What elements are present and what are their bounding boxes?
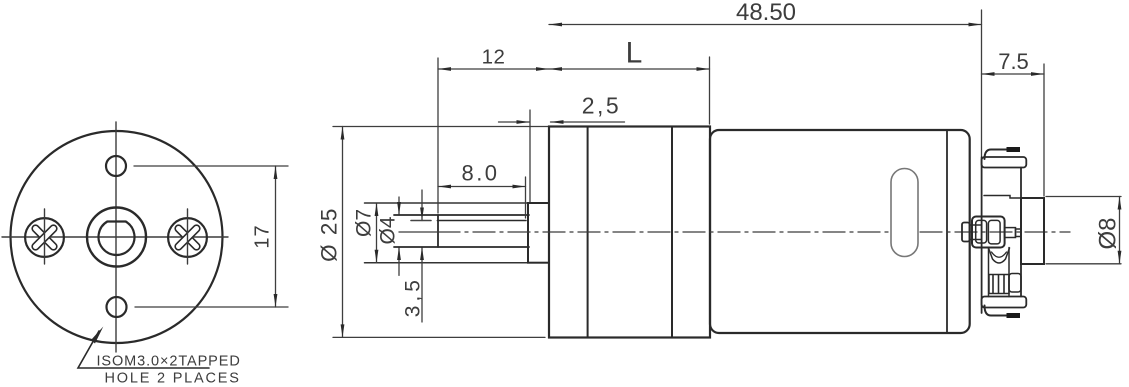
dim 2,5 hub extension line xyxy=(529,110,531,202)
svg-text:Ø 25: Ø 25 xyxy=(317,207,342,262)
hatched block xyxy=(989,275,1009,294)
endcap lower column xyxy=(988,248,990,297)
front view: D-shaped shaft hole xyxy=(99,222,135,255)
dim 2,5 left arrow (outside) xyxy=(499,121,530,123)
endcap top clip xyxy=(985,150,1020,160)
dim 17 bottom extension line xyxy=(135,306,288,308)
dim phi4 dimension line with outside arrows xyxy=(398,197,400,215)
dim 12 extension line at shaft tip xyxy=(437,58,439,213)
shaft phi4 top line xyxy=(394,214,529,216)
dim 48.50 dimension line xyxy=(549,24,982,26)
endcap top step lines xyxy=(984,196,1021,199)
svg-text:ISOM3.0×2TAPPED: ISOM3.0×2TAPPED xyxy=(97,354,241,370)
dim L dimension line xyxy=(549,68,710,70)
dim phi8 bottom extension line xyxy=(1046,263,1121,265)
svg-text:7.5: 7.5 xyxy=(998,49,1029,74)
shaft phi4 bottom line xyxy=(394,246,529,248)
front view: left tapped hole circle xyxy=(25,218,64,257)
dim phi25 top extension line xyxy=(333,126,549,128)
svg-text:12: 12 xyxy=(482,46,506,69)
front view: motor face outer circle xyxy=(11,131,223,343)
shaft flat short dash xyxy=(411,220,431,222)
front view: right tapped hole circle xyxy=(168,218,207,257)
dim 2,5 right arrow and leader xyxy=(551,121,625,123)
front view: left tapped hole centerline xyxy=(44,209,46,264)
svg-text:Ø7: Ø7 xyxy=(353,209,376,237)
dim 3,5 dimension line with outside arrows xyxy=(421,190,423,221)
dim 7.5 dimension line xyxy=(982,73,1045,75)
brush slot 2 xyxy=(988,220,1000,244)
endcap left edge xyxy=(981,157,983,313)
leader line xyxy=(78,331,209,368)
front view: horizontal centerline xyxy=(2,236,228,238)
lower rounded box xyxy=(1009,274,1021,293)
svg-text:Ø8: Ø8 xyxy=(1095,217,1122,249)
dim phi7 dimension line xyxy=(376,203,378,263)
dim phi8 top extension line xyxy=(1046,196,1121,198)
gearbox body xyxy=(549,127,710,338)
gearbox internal line 1 xyxy=(587,127,589,338)
gearbox internal line 2 xyxy=(671,127,673,338)
dim 17 dimension line xyxy=(275,166,277,307)
front view: center hub outer circle xyxy=(87,208,146,267)
dim 12 dimension line xyxy=(438,68,549,70)
motor can vent slot xyxy=(891,169,918,257)
bearing hub xyxy=(528,203,549,263)
dim 7.5 right extension line xyxy=(1043,64,1045,196)
motor can crimp line xyxy=(946,130,948,333)
front view: left tapped hole cross xyxy=(31,224,58,251)
endcap right edge xyxy=(1020,168,1022,297)
endcap top rim bar xyxy=(982,157,1027,168)
front view: top mounting hole xyxy=(106,156,126,176)
svg-text:17: 17 xyxy=(252,224,274,248)
front view: bottom mounting hole xyxy=(107,297,127,317)
svg-text:48.50: 48.50 xyxy=(736,0,796,26)
motor can body xyxy=(710,130,970,333)
endcap bottom rim bar xyxy=(982,297,1027,308)
dim 8.0 dimension line xyxy=(438,186,526,188)
front view: right tapped hole centerline xyxy=(187,209,189,264)
brush housing small box A xyxy=(962,223,970,242)
svg-text:3,5: 3,5 xyxy=(402,276,425,317)
dim L extension line xyxy=(709,57,711,124)
dim phi25 bottom extension line xyxy=(333,336,545,338)
endcap cup arcs xyxy=(989,248,1010,263)
front view: right tapped hole cross xyxy=(174,224,201,251)
dim phi25 dimension line xyxy=(342,127,344,338)
svg-text:8.0: 8.0 xyxy=(461,161,499,186)
shaft flat line xyxy=(437,220,526,222)
dim 8.0 right extension line xyxy=(525,177,527,218)
shaft centerline solid segment xyxy=(399,231,438,233)
dim phi8 dimension line xyxy=(1119,197,1121,264)
side view: phi7 extension bottom line xyxy=(365,262,529,264)
dim 17 top extension line xyxy=(134,165,288,167)
svg-text:2,5: 2,5 xyxy=(582,93,621,119)
shaft tip edge xyxy=(437,215,439,247)
side view: phi7 extension top line xyxy=(365,202,529,204)
brush housing outer box xyxy=(972,217,1005,248)
rear bushing boss phi8 xyxy=(1021,198,1044,264)
brush housing small box B xyxy=(970,225,982,240)
svg-text:L: L xyxy=(626,37,643,70)
main centerline dash-dot xyxy=(438,231,1070,233)
terminal lug xyxy=(1005,228,1016,238)
brush slot 1 xyxy=(976,220,987,243)
svg-text:Ø4: Ø4 xyxy=(377,216,400,244)
endcap bottom clip xyxy=(985,306,1020,316)
front view: vertical centerline xyxy=(115,122,117,352)
svg-text:HOLE 2 PLACES: HOLE 2 PLACES xyxy=(105,371,241,387)
dim 48.50 right extension line xyxy=(981,10,983,156)
leader arrow to tapped hole note xyxy=(91,327,103,344)
